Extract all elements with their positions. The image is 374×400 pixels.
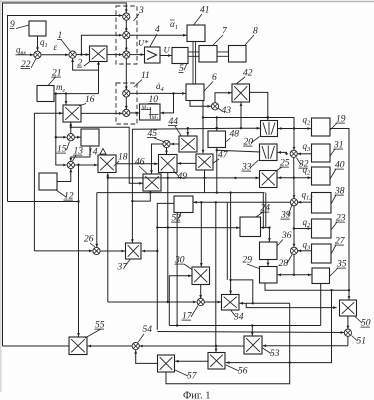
label 10 <box>148 95 158 105</box>
node 56top <box>215 345 217 347</box>
block 7 <box>199 46 217 63</box>
wire into summer 43 <box>190 101 211 108</box>
svg-text:14: 14 <box>88 148 98 158</box>
wire 15 tap to block 46 <box>71 127 143 184</box>
wire block 52 left loop <box>157 203 174 329</box>
wire 3b to 3c <box>125 39 128 51</box>
label 21 <box>48 69 62 86</box>
label 14 <box>88 148 106 158</box>
wire node 303 right <box>253 302 290 304</box>
wire node a up to summer 3b <box>81 34 122 55</box>
block 31 <box>312 144 331 162</box>
link 5-7 double line <box>188 52 199 56</box>
wire 3a to 3b <box>125 20 128 31</box>
svg-text:53: 53 <box>270 349 280 359</box>
bus y127 to block 20 <box>241 127 260 130</box>
label 5 <box>179 64 188 75</box>
wire block 52 bottom rail <box>176 213 178 326</box>
wire tap to node 303 <box>231 280 253 303</box>
wire into block 16 left <box>34 112 62 251</box>
vert 230 to block 34 <box>229 193 232 294</box>
wire block 2 feedback to summer 1 <box>71 59 98 71</box>
block 38 <box>312 193 332 214</box>
wire block 47 to block 49 <box>178 162 196 165</box>
svg-text:49: 49 <box>178 172 188 182</box>
wire 11a to 11b <box>125 97 128 109</box>
signal q1 <box>40 37 48 49</box>
wire into block 36 top <box>268 228 271 242</box>
node s <box>262 226 264 228</box>
svg-text:U*: U* <box>138 38 149 48</box>
wire block 56 to block 57 <box>175 360 208 363</box>
label 22 <box>21 59 37 71</box>
node i <box>240 127 242 129</box>
label 25 <box>275 159 290 172</box>
label 13 <box>73 147 84 162</box>
signal q2 a <box>303 115 312 127</box>
wire summer 15 to block 14 <box>74 136 80 139</box>
wire bus jog to riser <box>133 193 150 202</box>
block 30 <box>192 267 210 285</box>
wire into block 47 top <box>202 118 205 154</box>
label 20 <box>243 137 260 148</box>
wire summer 15 to block 16 <box>69 123 72 134</box>
wire block 18 output <box>116 162 158 165</box>
node f <box>70 126 72 128</box>
wire alpha1 bus to block 41 <box>130 34 187 37</box>
summer 22 <box>34 51 41 58</box>
block 14 <box>81 129 99 146</box>
node q <box>293 177 295 179</box>
summer 43 <box>211 103 218 110</box>
label 39 <box>280 205 292 221</box>
node z <box>229 279 231 281</box>
node 49b <box>167 226 169 228</box>
bus B2 y331 <box>157 331 344 334</box>
node n3 <box>167 177 169 179</box>
block 34 <box>222 295 240 311</box>
block 21 <box>37 86 54 102</box>
label 35 <box>330 260 347 277</box>
block 12 <box>39 173 57 190</box>
block 42 <box>232 84 250 102</box>
node d2 <box>55 92 57 94</box>
summer 28 <box>290 247 297 254</box>
block 53 <box>244 336 262 354</box>
label 3 <box>134 6 145 21</box>
bus B1 y325 <box>169 325 320 327</box>
label 19 <box>330 115 346 131</box>
wire block 9 to summer 22 <box>36 36 39 51</box>
label 53 <box>263 348 280 359</box>
node y <box>229 191 231 193</box>
wire summer 17 to block 34 <box>204 301 221 304</box>
summer 54 <box>132 342 139 349</box>
svg-text:28: 28 <box>279 259 289 269</box>
node jog <box>149 191 151 193</box>
label 38 <box>331 187 345 205</box>
bus y117 from block 6 <box>203 101 295 151</box>
vert 201 to block 30 <box>200 202 203 266</box>
wire block 30 to summer 17 <box>199 285 202 299</box>
wire y93 rail <box>54 93 99 95</box>
node jj <box>348 289 350 291</box>
svg-text:57: 57 <box>187 372 198 382</box>
wire second feedback <box>8 14 123 201</box>
label 7 <box>213 27 228 46</box>
svg-text:M1: M1 <box>141 105 149 111</box>
node u <box>215 201 217 203</box>
wire block 20 right to block 19 <box>278 127 311 130</box>
block 52 <box>174 196 193 213</box>
wire block 14 to summer 13 <box>69 146 90 161</box>
signal alpha1 <box>170 19 178 31</box>
wire block 48 bottom to bus <box>216 148 218 193</box>
block 29 <box>260 267 278 284</box>
summer 3c <box>123 51 130 58</box>
dashed box 11 <box>116 83 137 124</box>
svg-text:34: 34 <box>233 313 244 323</box>
wire 11a to block 6 <box>130 92 186 95</box>
svg-text:18: 18 <box>118 153 128 163</box>
label 54 <box>138 325 152 342</box>
label 56 <box>226 365 248 377</box>
wire into block 44 top <box>186 128 189 135</box>
wire col 28 down <box>293 254 295 274</box>
wire 3c down to 11a <box>125 58 128 90</box>
wire block 25 to block 40 <box>277 176 311 179</box>
block 25 <box>260 171 278 188</box>
label 48 <box>225 130 239 143</box>
label 16 <box>79 95 95 106</box>
wire pair a <box>262 193 264 228</box>
label 24 <box>256 204 270 218</box>
wire drop into block 56 <box>215 346 218 352</box>
wire block 35 bottom <box>320 284 322 326</box>
wire col 32-39 <box>293 157 296 198</box>
block 24 <box>240 217 261 237</box>
summer 51 <box>344 329 351 336</box>
block 46 <box>143 174 161 191</box>
wire into block 29 right <box>278 273 294 276</box>
wire into block 23 <box>294 227 311 230</box>
dashed box 3 <box>116 6 137 64</box>
page border top <box>0 1 374 3</box>
node 49c <box>167 301 169 303</box>
node v <box>156 226 158 228</box>
label 37 <box>117 260 131 273</box>
wire block 12 to summer 13 <box>57 169 72 182</box>
svg-text:54: 54 <box>143 325 153 335</box>
label 36 <box>277 231 292 246</box>
block 50 <box>340 300 357 316</box>
summer 3b <box>123 32 130 39</box>
node o2 <box>216 191 218 193</box>
label 44 <box>168 117 181 136</box>
node r <box>293 227 295 229</box>
wire block 47 bottom stub <box>204 170 206 192</box>
block 36 <box>260 242 278 260</box>
block 37 <box>126 243 142 259</box>
node ii <box>330 289 332 291</box>
block 19 <box>312 118 331 136</box>
label 29 <box>243 256 260 269</box>
node m <box>293 127 295 129</box>
block 6 <box>186 84 204 101</box>
wire block 29 bottom loop <box>265 283 349 290</box>
wire node to summer 26 <box>34 249 92 252</box>
node 48tap <box>216 149 218 151</box>
summer 45 <box>163 140 170 147</box>
bus y227 <box>157 226 239 229</box>
wire block 16 out <box>81 112 122 115</box>
block 47 <box>196 154 213 170</box>
svg-text:41: 41 <box>200 6 210 16</box>
page border left <box>0 0 2 392</box>
label 41 <box>194 6 210 25</box>
node aa <box>252 302 254 304</box>
wire block 2 to summer 3c <box>107 53 122 56</box>
block 55 <box>69 337 87 355</box>
label 42 <box>236 69 253 85</box>
wire col 39-28 <box>293 206 296 247</box>
arrow into block 25 right <box>278 176 281 179</box>
block 57 <box>158 355 175 372</box>
svg-text:U: U <box>164 45 171 55</box>
svg-text:4: 4 <box>155 25 160 35</box>
block 48 <box>208 131 226 148</box>
wire node c to block 10 right <box>161 93 174 114</box>
block 9 <box>29 21 46 36</box>
wire into block 37 right <box>142 250 158 253</box>
wire into block 48 top <box>215 118 218 131</box>
node c <box>172 92 174 94</box>
label 55 <box>85 321 105 339</box>
wire 48 tap to block 33 <box>217 150 260 152</box>
label 28 <box>279 255 293 270</box>
wire summer 51 down <box>347 336 349 345</box>
wire node d down rail <box>56 94 67 167</box>
wire block 42 right down <box>250 92 270 120</box>
link 7-8 double line <box>217 52 229 56</box>
label 27 <box>331 237 346 255</box>
block 5 <box>172 48 188 64</box>
svg-text:M2: M2 <box>151 115 159 121</box>
label 33 <box>241 160 259 173</box>
summer 15 <box>67 134 74 141</box>
wire into block 35 left <box>294 273 311 276</box>
signal epsilon <box>54 42 58 52</box>
label 12 <box>56 190 74 202</box>
label 9 <box>10 20 30 30</box>
wire summer 54 to block 55 <box>88 345 133 348</box>
block 2 <box>90 46 108 62</box>
label 11 <box>134 71 150 87</box>
wire summer 3c to amp <box>130 53 144 56</box>
wire top feedback to node 3 <box>3 3 128 346</box>
bus y177 to block 25 <box>108 176 259 179</box>
wire node to block 33 <box>278 151 287 154</box>
svg-text:26: 26 <box>84 235 94 245</box>
summer 11b <box>123 109 130 116</box>
node b <box>97 63 99 65</box>
node k <box>267 116 269 118</box>
svg-text:ε: ε <box>54 42 58 52</box>
label 8 <box>245 27 258 46</box>
wire summer 45 left to block 46 <box>150 144 163 174</box>
node dd <box>251 324 253 326</box>
wire q_vx input <box>29 53 34 56</box>
label 43 <box>219 106 232 116</box>
node 6-47 <box>202 116 204 118</box>
arrow into block 37 top <box>131 239 134 242</box>
wire down to block 53 <box>251 326 254 336</box>
label 2 <box>77 59 90 69</box>
vert 215 down <box>215 202 217 346</box>
block 41 <box>187 25 205 42</box>
wire pair b <box>265 193 267 228</box>
label 47 <box>213 151 229 164</box>
node 33t <box>285 153 287 155</box>
label 46 <box>135 158 147 174</box>
label 31 <box>330 141 344 157</box>
label 6 <box>204 73 217 91</box>
signal q2 b <box>303 165 312 177</box>
block 10 <box>140 104 161 121</box>
summer 13 <box>67 161 74 168</box>
block 8 <box>229 46 247 63</box>
node gg2 <box>289 361 291 363</box>
wire into block 30 left <box>169 274 191 325</box>
wire summer 45 to block 49 <box>165 148 168 154</box>
block 49 <box>159 155 178 173</box>
wire summer 1 to block 2 <box>76 53 89 56</box>
wire drop into block 16 top <box>65 94 68 105</box>
arrow into block 20 right <box>278 127 281 130</box>
svg-text:51: 51 <box>357 337 367 347</box>
label 1 <box>57 31 70 51</box>
label 17 <box>182 306 199 322</box>
block 35 <box>312 268 330 284</box>
wire block 57 to summer 54 <box>134 350 157 363</box>
block 40 <box>312 167 331 185</box>
summer 39 <box>290 199 297 206</box>
label 52 <box>171 213 181 224</box>
wire y201 link <box>8 201 79 203</box>
wire riser 49 rail <box>167 173 169 303</box>
wire block 50 to summer 51 <box>346 316 349 329</box>
svg-text:47: 47 <box>218 151 229 161</box>
wire block 31 to summer 32 <box>298 152 312 155</box>
wire branch to block 50 <box>246 303 336 309</box>
signal q2 c <box>303 217 312 229</box>
signal q3 c <box>303 240 312 252</box>
signal a4dot <box>156 81 165 93</box>
wire block 44 to summer 45 <box>171 143 179 146</box>
block 18 <box>98 155 116 173</box>
wire summer 26 to block 37 <box>100 250 125 253</box>
label 4 <box>150 25 160 47</box>
block 56 <box>208 353 225 370</box>
wire block 18 bottom rail <box>106 173 109 302</box>
label 15 <box>57 142 70 155</box>
label 49 <box>173 171 187 183</box>
link 41-6 double line <box>193 42 196 85</box>
summer 11a <box>123 90 130 97</box>
signal q3 a <box>303 141 312 153</box>
wire summer 43 to block 42 <box>215 91 232 102</box>
node y201 <box>77 200 79 202</box>
block 44 <box>179 136 197 152</box>
signal q_vx <box>16 45 26 57</box>
signal m_g <box>56 82 66 94</box>
label 34 <box>231 311 244 323</box>
block 23 <box>312 219 332 238</box>
summer 17 <box>197 298 204 305</box>
wire summer 22 to summer 1 <box>41 53 69 56</box>
node a <box>80 53 82 55</box>
wire node e to summer 15 <box>56 136 67 139</box>
node s2 <box>268 226 270 228</box>
node d <box>65 92 67 94</box>
summer 32 <box>290 150 297 157</box>
signal q12 <box>302 190 314 202</box>
svg-text:11: 11 <box>141 71 150 81</box>
wire to block 55 top <box>77 165 80 337</box>
svg-text:48: 48 <box>230 130 240 140</box>
svg-text:56: 56 <box>238 367 248 377</box>
svg-text:Фиг. 1: Фиг. 1 <box>183 391 211 400</box>
label 23 <box>331 214 346 231</box>
label 45 <box>147 129 164 142</box>
wire 37 riser bus <box>132 128 241 242</box>
op-amp 4 <box>145 47 161 63</box>
node 13out <box>77 164 79 166</box>
bus y202 main <box>194 201 291 204</box>
vert 227 extra <box>226 203 228 280</box>
summer 3a <box>123 13 130 20</box>
node w <box>176 324 178 326</box>
wire block 2 bottom drop <box>98 64 100 94</box>
block 16 <box>63 105 81 122</box>
node jog2 <box>131 200 133 202</box>
wire summer 13 to block 18 <box>74 164 97 167</box>
node g <box>107 177 109 179</box>
node cc <box>156 250 158 252</box>
label 26 <box>84 235 95 248</box>
node n <box>203 177 205 179</box>
svg-text:46: 46 <box>135 158 145 168</box>
wire block 24 out <box>261 227 270 229</box>
node p <box>293 274 295 276</box>
node t <box>200 201 202 203</box>
label 18 <box>114 153 128 167</box>
wire amp to block 5 <box>160 54 172 57</box>
wire 11b to block 10 <box>130 111 139 114</box>
signal U* <box>138 38 149 48</box>
wire rail to summer 17 <box>108 301 197 304</box>
signal q_vx underline <box>16 54 29 56</box>
wire block 53 to summer 54 <box>139 345 244 348</box>
wire block 27 to summer 28 <box>298 249 311 252</box>
wire up into block 42 bottom <box>240 103 243 129</box>
node l <box>216 116 218 118</box>
node n2 <box>234 177 236 179</box>
signal U <box>164 45 171 55</box>
label 57 <box>175 370 198 382</box>
wire block 36 to block 29 <box>267 260 270 267</box>
wire block 38 to summer 39 <box>298 201 311 204</box>
